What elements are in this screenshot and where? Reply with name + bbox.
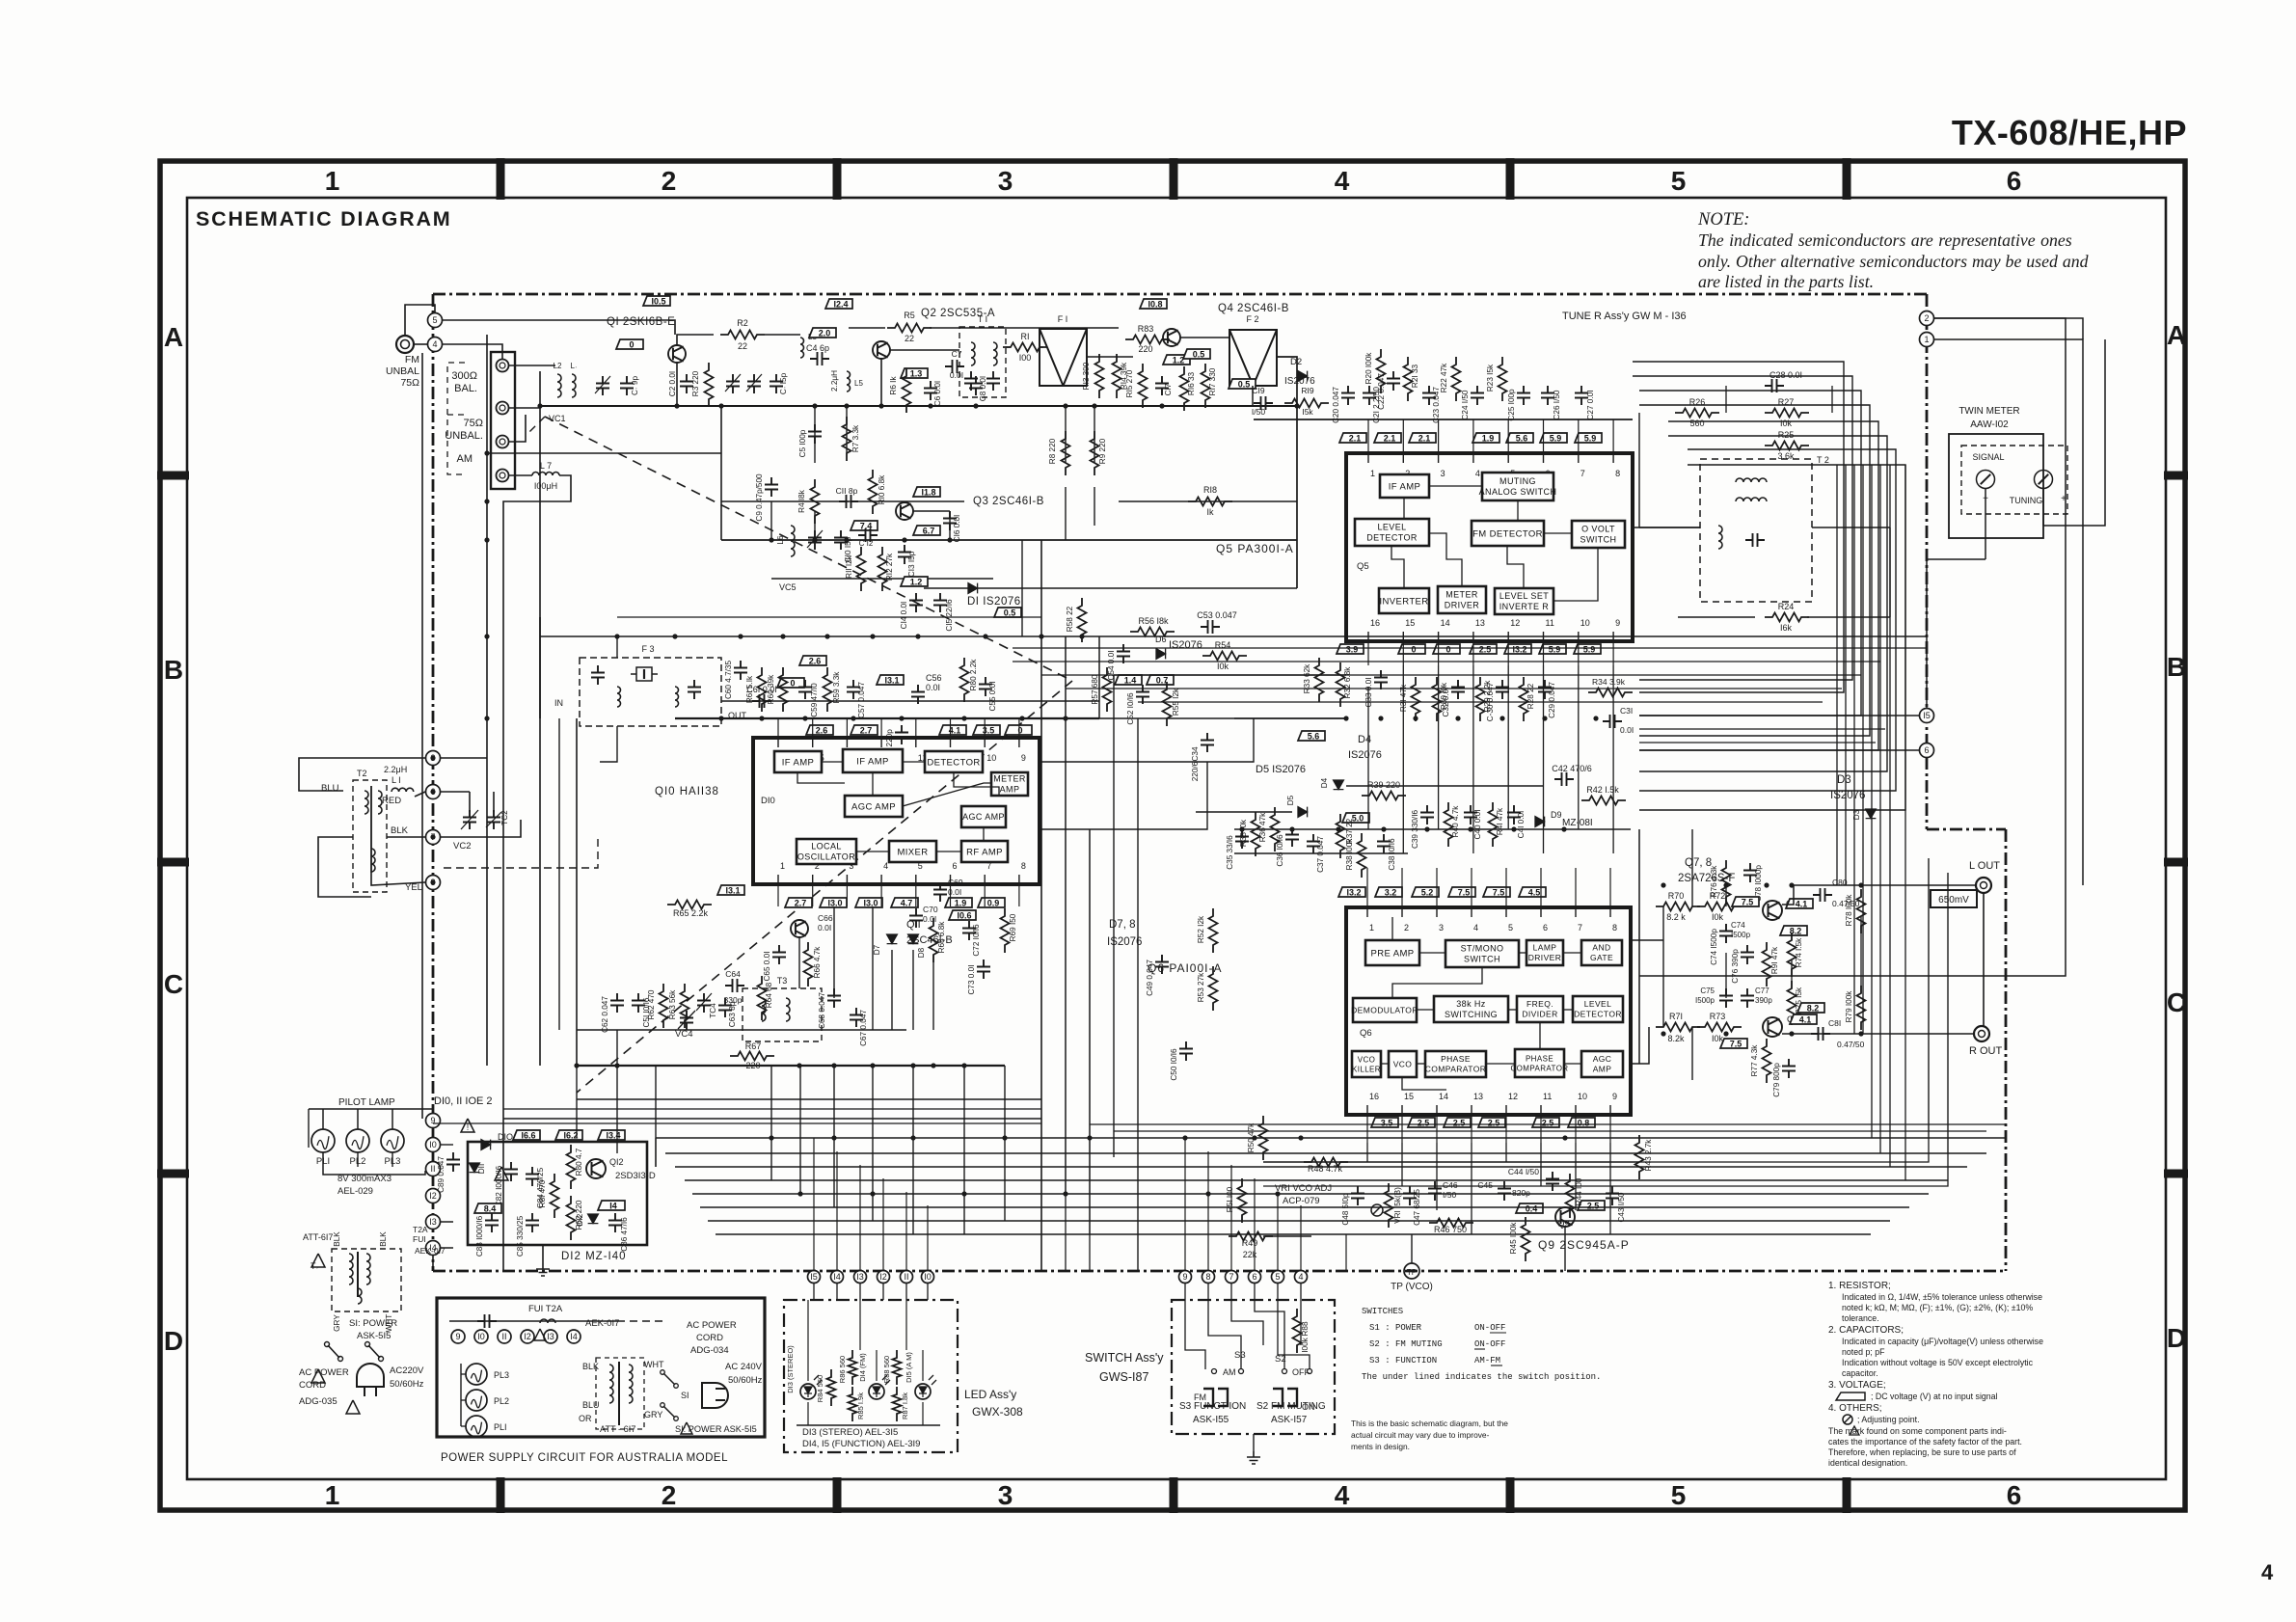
wire switch pins up [1184,1138,1186,1234]
svg-text:C44 I/50: C44 I/50 [1508,1167,1539,1176]
svg-text:I500p: I500p [1731,931,1751,939]
svg-text:C89 0.047: C89 0.047 [437,1156,446,1193]
capacitor C57 0047 [847,680,860,699]
capacitor C41 001 [1507,805,1521,825]
IC Q5 outline [1346,453,1633,641]
block LOCAL OSCILLATOR [797,839,856,864]
variable cap VC2 [463,810,476,829]
wire terminal 15 left [1639,715,1919,716]
svg-text:R7 3.3k: R7 3.3k [851,424,860,452]
svg-text:FUI: FUI [413,1234,426,1244]
svg-text:F 3: F 3 [641,644,654,654]
svg-text:I2: I2 [429,1191,437,1201]
svg-text:DI3 (STEREO) AEL-3I5: DI3 (STEREO) AEL-3I5 [802,1427,898,1438]
svg-text:R84 560: R84 560 [816,1375,824,1402]
svg-text:C I2: C I2 [859,539,874,548]
svg-text:C: C [2167,987,2186,1017]
svg-text:AC220V: AC220V [390,1365,424,1376]
voltage flag 2.6 b [806,725,833,736]
svg-text:IS2076: IS2076 [1348,749,1382,761]
resistor R32 6.8k [1337,662,1345,707]
voltage flag 16.2 [555,1130,582,1141]
led pin 12 [878,1271,890,1284]
svg-text:C: C [164,969,183,999]
wire R2 to L3 [765,334,800,336]
svg-text:C4 6p: C4 6p [806,343,829,353]
svg-text:C68 0.047: C68 0.047 [818,992,826,1029]
wire socket2 [509,371,540,408]
terminal 13 bl [426,1215,441,1230]
wire B section frame [616,636,618,658]
capacitor C62 0047 [610,993,624,1013]
diode D6 [1156,649,1166,660]
block IF AMP Q5 [1380,474,1429,498]
svg-text:C5 I00p: C5 I00p [798,429,807,457]
voltage flag 5.6 D4 [1298,731,1325,742]
svg-text:4: 4 [432,339,437,349]
svg-text:R78 I00k: R78 I00k [1845,894,1853,927]
twin meter outer box [1949,434,2043,538]
capacitor C1 9p [620,376,634,395]
capacitor C59 47/10 [798,680,812,699]
terminal 12 bl [426,1189,441,1203]
svg-text:S3: S3 [1234,1350,1246,1361]
capacitor C37 0047 [1307,834,1320,853]
svg-text:R57 680: R57 680 [1091,674,1099,704]
svg-text:LOCAL: LOCAL [811,842,842,852]
svg-text:CII 8p: CII 8p [836,486,858,496]
FM antenna connector [396,336,414,353]
svg-text:This is the basic schematic di: This is the basic schematic diagram, but… [1351,1419,1508,1428]
svg-text:ADG-034: ADG-034 [690,1345,729,1356]
Q6 top flags [1338,887,1365,898]
svg-text:R5: R5 [904,311,915,320]
svg-text:S2 FM MUTING: S2 FM MUTING [1256,1401,1326,1412]
capacitor C32 001 [1451,680,1465,699]
svg-text:R87 I.8k: R87 I.8k [901,1392,909,1419]
svg-text:4: 4 [1473,923,1478,933]
svg-text:RI7 330: RI7 330 [1208,367,1217,395]
svg-text:5.9: 5.9 [1549,645,1561,655]
capacitor C67 0047 [850,1008,863,1027]
svg-text:2.5: 2.5 [1488,1119,1500,1128]
svg-text:75Ω: 75Ω [464,418,483,429]
wire horizontals between Q5 and Q6 [1234,717,1346,719]
resistor R9 220 [1091,431,1099,475]
svg-text:AMP: AMP [1593,1065,1612,1074]
capacitor C39 330/16 [1420,805,1434,825]
resistor R80 2.2k [960,658,969,702]
svg-text:10: 10 [986,753,996,763]
svg-text:3: 3 [998,1480,1013,1510]
svg-text:0.0I: 0.0I [1620,725,1634,735]
resistor R69 150 [1001,908,1010,953]
svg-text:R86 560: R86 560 [838,1356,847,1383]
svg-text:LAMP: LAMP [1533,943,1557,953]
resistor R54 10k [1202,652,1247,661]
svg-text:5: 5 [1275,1272,1280,1282]
svg-text:GWS-I87: GWS-I87 [1099,1370,1148,1384]
block FM DETECTOR [1472,521,1544,546]
svg-text:5: 5 [432,315,437,325]
svg-text:S3 : FUNCTION: S3 : FUNCTION [1369,1356,1437,1365]
led pin 15 [808,1271,821,1284]
block IF AMP 2 [843,749,903,772]
svg-text:2SD3I3-D: 2SD3I3-D [615,1171,656,1181]
svg-text:0.8: 0.8 [1578,1119,1590,1128]
border frame outer [160,161,2185,1510]
svg-text:2.5: 2.5 [1479,645,1492,655]
wire long haul IF to right 1 [1099,635,1927,637]
svg-text:9: 9 [1182,1272,1187,1282]
svg-text:16: 16 [1370,618,1380,628]
svg-text:C66: C66 [818,913,833,923]
svg-text:I/50: I/50 [1443,1190,1456,1200]
resistor R76 4.3k [1722,860,1731,905]
resistor R60 39k [779,667,788,712]
svg-text:I3: I3 [547,1332,554,1341]
wire Q10 pin drops [777,718,779,738]
svg-text:C57 0.047: C57 0.047 [857,682,866,718]
svg-text:C˒ 9p: C˒ 9p [631,376,639,395]
wire T2 to terminal 6 [415,792,425,797]
svg-text:C4I 0.0I: C4I 0.0I [1517,811,1526,839]
svg-text:5.9: 5.9 [1583,645,1596,655]
resistor R84 560 [827,1369,836,1406]
resistor R72 10k [1697,903,1742,911]
voltage flag 7.5 Q7 [1732,897,1759,907]
T2 windings left [365,791,368,814]
voltage flag 0 at Q1 gate [616,339,643,350]
voltage flag 3.5 [973,725,1000,736]
svg-text:I2: I2 [524,1332,531,1341]
wire C49 cap mid [1155,955,1169,974]
voltage flag 1.4 [1115,675,1142,686]
svg-text:Therefore, when replacing,: Therefore, when replacing, be sure to us… [1828,1447,2016,1457]
capacitor C56 001 [911,685,925,704]
wire Q6 right outputs [1631,939,1663,941]
resistor R73 10k [1697,1023,1742,1032]
svg-text:14: 14 [1439,1092,1448,1101]
svg-text:L OUT: L OUT [1969,860,2000,872]
voltage flag 11.8 [913,487,940,498]
svg-text:ON-OFF: ON-OFF [1474,1339,1505,1349]
svg-text:0.0I: 0.0I [818,923,831,933]
wire mid extra horizontal [577,1029,617,1031]
svg-text:QI0 HAII38: QI0 HAII38 [655,786,719,797]
svg-text:I/50: I/50 [1252,407,1265,417]
svg-text:T2: T2 [357,769,367,778]
wire R49 long [1263,1235,1311,1237]
svg-text:ASK-I55: ASK-I55 [1193,1415,1229,1425]
Q5 bottom pins 16-9 [1367,632,1369,641]
capacitor C16 001 [943,511,957,530]
T2r coil v [1718,526,1722,549]
svg-text:IN: IN [554,698,563,708]
zone column dividers bottom band [497,1477,505,1513]
svg-text:ASK-I57: ASK-I57 [1271,1415,1308,1425]
wire D1 row [924,587,1297,589]
svg-text:C35 33/I6: C35 33/I6 [1226,835,1234,870]
svg-text:3: 3 [1439,923,1444,933]
diode D11 [470,1163,480,1173]
wire Q4 to F2 [1180,337,1229,338]
svg-text:COMPARATOR: COMPARATOR [1510,1064,1568,1072]
capacitor C76 390p [1741,945,1754,964]
wire Q9 region horizontals [1263,1185,1639,1187]
svg-text:1: 1 [1924,335,1929,344]
svg-text:AM: AM [1223,1367,1236,1377]
svg-text:3: 3 [1441,469,1445,478]
capacitor C75 1500p [1719,988,1733,1008]
svg-text:C76 390p: C76 390p [1731,949,1740,984]
svg-text:R2I 33: R2I 33 [1411,364,1419,388]
svg-text:16: 16 [1369,1092,1379,1101]
S3 AM contact [1212,1369,1217,1374]
svg-text:38k Hz: 38k Hz [1456,999,1486,1009]
resistor R45 100k [1522,1217,1530,1261]
svg-text:I3.2: I3.2 [1346,888,1361,898]
capacitor C44 1/50 [1546,1172,1559,1191]
svg-text:2.1: 2.1 [1384,434,1396,444]
svg-text:0.4: 0.4 [1526,1204,1538,1214]
svg-text:I500p: I500p [1695,996,1715,1005]
capacitor C54 001 [1117,644,1130,663]
capacitor C80 047/50 [1813,888,1832,902]
svg-text:12: 12 [1508,1092,1518,1101]
svg-text:R53 27k: R53 27k [1197,972,1205,1002]
svg-text:C70: C70 [923,905,938,914]
svg-text:R35 I0k: R35 I0k [1239,819,1248,847]
svg-text:C74: C74 [1731,921,1745,930]
F3 windings [617,687,621,707]
transistor Q8 [1763,1017,1782,1037]
svg-text:R8I 470: R8I 470 [538,1179,547,1207]
svg-text:11: 11 [1543,1092,1552,1101]
resistor R68 6.8k [930,918,938,962]
svg-text:I3.0: I3.0 [827,899,842,908]
svg-text:4: 4 [1335,1480,1350,1510]
sw pin 4 [1295,1271,1308,1284]
wire F2 out right [1277,357,1297,588]
ps top wire [449,1320,617,1322]
svg-text:actual circuit may vary du: actual circuit may vary due to improve- [1351,1430,1490,1440]
resistor R37 22 [1337,814,1345,858]
resistor R34 3.9k [1588,689,1633,697]
svg-text:R32 6.8k: R32 6.8k [1343,666,1352,699]
sw pin stubs [1184,1284,1186,1300]
capacitor C74 1500p [1719,924,1733,943]
svg-text:0.9: 0.9 [987,899,1000,908]
block AGC AMP 2 [961,806,1006,827]
wire F2 to IF down [1252,386,1254,406]
svg-text:RI3 390: RI3 390 [1082,362,1091,390]
sw pin 9 [1179,1271,1192,1284]
resistor R53 27k [1209,966,1218,1011]
svg-text:R34 3.9k: R34 3.9k [1592,677,1626,687]
block LAMP DRIVER [1526,940,1563,965]
svg-text:6: 6 [953,861,958,871]
svg-text:FUI T2A: FUI T2A [528,1304,563,1314]
resistor R57 680 [1103,667,1112,712]
svg-text:C86 47/I6: C86 47/I6 [620,1217,629,1252]
diode D2 [1298,371,1308,382]
resistor R51 100 [1238,1178,1247,1223]
warning ps plug [681,1422,692,1434]
svg-text:I3.4: I3.4 [606,1131,620,1141]
terminal 11 bl [426,1162,441,1176]
svg-text:R77 4.3k: R77 4.3k [1750,1044,1759,1077]
capacitor C52 10/16 [1136,685,1149,704]
transistor Q2 [873,341,890,359]
svg-text:C28 0.0I: C28 0.0I [1769,370,1802,380]
capacitor C60 4.7/35 [734,661,747,680]
meter SIGNAL [1977,471,1995,489]
svg-text:SWITCHING: SWITCHING [1445,1010,1498,1019]
svg-text:6.7: 6.7 [923,527,935,536]
inductor L1 [392,788,414,792]
svg-text:R64 68: R64 68 [765,982,773,1008]
svg-text:0: 0 [1017,726,1022,736]
Q5 bottom flags [1337,644,1364,655]
block LEVEL DETECTOR Q6 [1573,996,1623,1022]
wire right comb down [1836,465,1838,885]
svg-text:C8I: C8I [1828,1018,1841,1028]
svg-text:R46 750: R46 750 [1434,1225,1467,1234]
block O VOLT SWITCH [1572,521,1625,548]
wire left verticals to B section [486,636,488,1066]
svg-text:C72 I0/I6: C72 I0/I6 [972,924,981,957]
resistor R38 100k [1358,833,1366,878]
svg-text:II: II [501,1332,506,1341]
svg-text:; Adjusting point.: ; Adjusting point. [1857,1415,1920,1424]
svg-text:AC POWER: AC POWER [299,1367,349,1378]
wire socket3 [509,415,526,442]
wire q2 emitter drop [880,359,882,406]
voltage flag 6.7 [913,526,940,536]
ps fuse [540,1319,555,1323]
svg-text:CI7: CI7 [1164,383,1173,395]
wire Q11 bus bottom [577,1065,1005,1067]
resistor R1 100 [1003,343,1047,352]
dashed gang diagonal lower [577,681,1072,1093]
svg-text:LED Ass'y: LED Ass'y [964,1388,1016,1401]
svg-text:C75: C75 [1700,987,1715,995]
svg-text:2.2μH: 2.2μH [384,765,407,774]
voltage flag 16.6 [513,1130,540,1141]
svg-text:6: 6 [1543,923,1548,933]
wire amp bias verticals [1725,887,1727,906]
wire Q8 emitter to R OUT [1782,1033,1832,1035]
ps switch S1 [663,1373,675,1385]
crystal filter F3 dashed box [580,658,721,726]
svg-text:0: 0 [1445,645,1450,655]
wire bottom long buses [656,1137,2006,1139]
resistor R40 4.7k [1445,802,1453,847]
wire row above Q6 [1234,828,1631,830]
trimmer TC1 [596,376,609,395]
capacitor C15 22/16 [933,593,947,612]
svg-text:14: 14 [1441,618,1450,628]
capacitor C68 0047 [827,988,841,1008]
svg-text:I0: I0 [477,1332,485,1341]
wire front-end mid verticals [814,406,816,463]
warning triangle 2 [495,1167,508,1180]
svg-text:I00μH: I00μH [534,481,557,491]
zone row dividers left band [157,472,189,480]
wire osc drop to IF [502,1119,504,1271]
wire TP VCO drop [1411,1234,1413,1263]
wire IF right link verticals [1098,636,1100,718]
wire OUT bus extension [721,700,1099,702]
svg-text:INVERTER: INVERTER [1379,596,1428,607]
svg-text:C34: C34 [1191,746,1200,761]
Q6 bottom flags [1371,1118,1398,1128]
wire front-end lower return [721,539,1297,541]
svg-text:Q6: Q6 [1360,1028,1372,1039]
svg-text:SCHEMATIC DIAGRAM: SCHEMATIC DIAGRAM [196,207,452,230]
transistor Q7 [1763,901,1782,920]
terminal 7 [426,830,441,845]
S2 ON slide [1273,1389,1297,1406]
sw pin 7 [1226,1271,1238,1284]
svg-text:The indicated semiconductors: The indicated semiconductors are represe… [1698,230,2072,250]
svg-text:1.9: 1.9 [1482,434,1495,444]
svg-text:DI IS2076: DI IS2076 [967,596,1021,608]
svg-text:R72: R72 [1710,891,1726,901]
svg-text:C55 0.0I: C55 0.0I [988,682,997,712]
svg-text:I3.1: I3.1 [725,886,740,896]
wire long haul IF to right 2 [1099,717,1346,719]
block LEVEL DETECTOR [1355,519,1429,546]
svg-text:I6k: I6k [1780,623,1793,633]
svg-text:Q3 2SC46I-B: Q3 2SC46I-B [973,496,1044,507]
svg-text:C36 I0/I6: C36 I0/I6 [1276,834,1284,867]
voltage flag 1.2 [1163,355,1190,365]
capacitor C48 510p [1351,1186,1364,1205]
wire led pins up [813,1138,815,1234]
svg-text:13: 13 [1473,1092,1483,1101]
diode D3 [1866,809,1877,819]
capacitor C6 001 [924,381,937,400]
capacitor C53 0047 [1201,620,1220,634]
svg-text:TC2: TC2 [500,810,509,825]
svg-text:VC2: VC2 [453,841,471,852]
svg-text:1.4: 1.4 [1124,676,1137,686]
svg-text:RI0 6.8k: RI0 6.8k [878,474,886,504]
svg-text:2.0: 2.0 [819,329,831,338]
capacitor C84 470/25 [526,1167,539,1186]
svg-text:VRI VCO ADJ: VRI VCO ADJ [1275,1183,1332,1194]
svg-text:I3: I3 [856,1272,864,1282]
svg-text:10: 10 [1578,1092,1587,1101]
svg-text:7: 7 [1229,1272,1233,1282]
resistor R13 390 [1095,354,1104,398]
wires pilot area [432,1256,434,1271]
ps cap [477,1314,497,1328]
svg-text:AGC: AGC [1593,1054,1612,1064]
svg-text:2.1: 2.1 [1418,434,1431,444]
svg-text:300Ω: 300Ω [451,370,477,382]
transistor Q4 [1163,329,1180,346]
capacitor C47 68/25 [1403,1186,1417,1205]
svg-text:R62 470: R62 470 [647,989,656,1019]
svg-text:13: 13 [1475,618,1485,628]
tuner assembly boundary top [433,293,1927,296]
resistor R58 22 [1078,598,1087,642]
warning triangle T1 [311,1254,325,1267]
svg-text:0.47/50: 0.47/50 [1837,1040,1865,1049]
